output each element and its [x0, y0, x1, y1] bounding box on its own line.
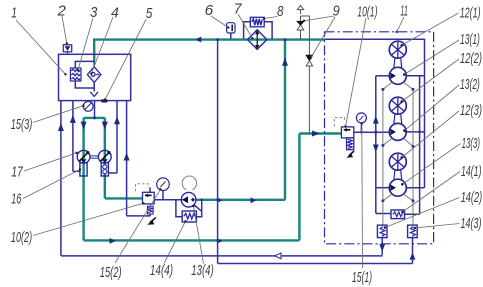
wire tank return bus riser: [60, 101, 62, 256]
svg-text:12(2): 12(2): [460, 50, 482, 67]
svg-text:15(3): 15(3): [11, 116, 33, 133]
wire left case drain rail: [382, 89, 384, 225]
breather 2: [63, 45, 71, 55]
wire pump1 case drain: [73, 101, 80, 172]
svg-text:13(3): 13(3): [462, 135, 480, 152]
svg-text:6: 6: [205, 2, 214, 19]
strainer under pump 17: [80, 163, 87, 176]
leader 12(1): [402, 13, 459, 45]
leader 14(3): [415, 224, 460, 228]
leader 9 to valve 9b: [311, 17, 335, 58]
leader 14(2): [385, 198, 460, 228]
open arrow left on bus 1: [275, 253, 282, 259]
svg-text:4: 4: [111, 5, 119, 22]
leader 13(1): [404, 40, 459, 75]
leader 10(1): [346, 18, 367, 127]
svg-text:5: 5: [146, 5, 153, 22]
valve 10(2) drain arrow: [147, 218, 156, 225]
leader 12(3): [402, 111, 459, 158]
valve 10(1) pilot bracket: [334, 118, 344, 127]
thermometer 15(3): [83, 101, 93, 111]
wire filter loop: [75, 61, 94, 91]
fan 12(3) shaft: [394, 170, 402, 179]
svg-text:8: 8: [277, 3, 284, 20]
wire pressure riser: [298, 134, 300, 241]
wire return header: [325, 39, 425, 187]
svg-text:7: 7: [234, 1, 242, 18]
arrow up valve 10(2) drain: [124, 153, 130, 161]
leader 9 to valve 9a: [304, 16, 334, 21]
arrow up pump2 drain: [114, 116, 120, 124]
svg-text:14(2): 14(2): [461, 189, 483, 206]
wire return from pump 13(4): [196, 199, 286, 201]
leader 13(4): [194, 206, 204, 263]
svg-text:2: 2: [57, 3, 67, 20]
wire motor1 right port: [406, 75, 424, 77]
leader 14(1): [403, 172, 461, 212]
bypass check valve 4: [87, 67, 101, 83]
arrow right on pump return (mid): [251, 197, 257, 203]
wire feed to valve 10(1): [299, 132, 341, 134]
gauge 15(1): [356, 113, 366, 123]
leader 8: [264, 17, 278, 19]
leader 12(2): [402, 59, 459, 102]
relief valve 14(1): [391, 210, 405, 219]
svg-text:13(1): 13(1): [460, 31, 480, 48]
motor 13(3): [389, 179, 406, 196]
motor 13(2): [389, 123, 406, 140]
wire gauge 15(1) stem: [360, 123, 362, 132]
arrow up make-up inlet: [410, 252, 416, 259]
filter 14(2): [377, 225, 387, 238]
cooler 7: [248, 30, 267, 50]
svg-text:1: 1: [11, 5, 17, 22]
wire sensor 6 stem: [230, 33, 232, 39]
motor 13(2) drain legs: [383, 138, 413, 146]
filter 3: [70, 68, 81, 81]
valve 10(2): [143, 192, 155, 214]
gauge 15(2): [157, 178, 170, 191]
wire pump2 to valve 10(2): [105, 197, 143, 199]
wire return bus 1: [61, 255, 383, 257]
wire valve 10(1) out to motor2: [354, 131, 389, 133]
leader end dots: [64, 17, 416, 229]
drain plug 5: [101, 99, 107, 102]
svg-text:15(2): 15(2): [100, 264, 122, 281]
wire pump2 case drain: [109, 101, 117, 173]
leader 4: [91, 17, 113, 74]
tank: [59, 54, 131, 100]
svg-text:16: 16: [11, 191, 22, 208]
temperature sensor 6: [227, 23, 235, 33]
leader 1: [16, 20, 66, 74]
wire tank suction stub: [94, 101, 96, 118]
svg-text:14(3): 14(3): [461, 215, 482, 232]
fan 12(2): [389, 97, 406, 114]
valve 10(2) pilot bracket: [136, 184, 149, 192]
wire gauge 15(2) stem: [162, 191, 164, 200]
filter 14(4): [182, 211, 196, 222]
motor 13(1): [389, 67, 406, 84]
svg-text:14(1): 14(1): [461, 163, 482, 180]
pump 16: [98, 150, 111, 163]
valve 10(1) drain arrow: [346, 151, 354, 158]
leader 2: [62, 16, 67, 44]
node on enclosure border: [396, 31, 399, 34]
svg-text:17: 17: [11, 164, 23, 181]
pump 13(4): [181, 192, 196, 207]
svg-text:9: 9: [333, 3, 341, 20]
motor 13(3) drain legs: [383, 194, 413, 201]
wire motor2 right port: [405, 131, 425, 133]
arrow down supply rail: [373, 145, 379, 153]
arrow right on pressure bus (mid): [218, 239, 222, 243]
leader 15(2): [115, 189, 161, 263]
leader 7: [238, 14, 252, 38]
svg-text:15(1): 15(1): [352, 269, 372, 286]
wire valve 10(2) pilot stem: [149, 187, 151, 192]
wire pump2 suction/delivery: [104, 118, 106, 198]
vent valve 9b: [306, 55, 312, 133]
wire make-up 14(3) inlet: [412, 238, 414, 264]
leader 3: [78, 18, 93, 70]
enclosure 11: [325, 32, 434, 244]
leader 10(2): [33, 203, 143, 235]
arrow up supply rail: [373, 116, 379, 124]
wire supply rail: [376, 76, 391, 214]
leader 13(2): [404, 85, 459, 131]
leader 14(4): [164, 221, 186, 263]
vent valve 9a: [297, 5, 309, 55]
wire return riser: [284, 40, 286, 200]
wire motor3 right port: [406, 187, 425, 189]
wire main return line: [94, 40, 324, 62]
cooler bypass valve 8: [250, 17, 264, 27]
arrow down suction left: [81, 122, 87, 130]
arrow up on return riser: [282, 58, 288, 66]
arrow up pump1 drain: [70, 115, 76, 123]
fan 12(1): [389, 41, 406, 58]
wire inner return rail: [405, 76, 420, 215]
wire cooler bypass loop: [244, 22, 273, 39]
wire motor1 left port: [376, 75, 390, 77]
wire drain 14(2) outlet: [381, 238, 383, 256]
svg-text:3: 3: [90, 4, 98, 21]
valve 10(1): [341, 127, 353, 150]
svg-text:12(1): 12(1): [460, 5, 481, 22]
svg-text:13(2): 13(2): [460, 76, 480, 93]
fan 12(1) shaft: [394, 58, 402, 67]
flow arrows: [58, 37, 416, 260]
wire motor3 left port: [376, 187, 389, 189]
leader 16: [23, 170, 80, 199]
svg-text:11: 11: [400, 3, 408, 20]
arrow right on valve 10(1) feed: [312, 131, 320, 137]
leader 6: [211, 16, 228, 28]
wire pump1 pressure bus: [84, 239, 300, 241]
svg-text:10(1): 10(1): [357, 4, 377, 21]
pump coupling: [90, 156, 98, 158]
svg-text:12(3): 12(3): [460, 102, 482, 119]
svg-text:14(4): 14(4): [150, 262, 173, 279]
arrow up tank bus riser: [58, 123, 64, 131]
leader 15(3): [33, 106, 83, 123]
leader 17: [24, 153, 77, 171]
leader 5: [105, 20, 146, 100]
arrow left on main return: [195, 37, 201, 43]
pump 13(4) drive arc: [182, 176, 196, 190]
arrow down drain outlet: [379, 244, 385, 251]
tank discharge arrow: [90, 92, 98, 97]
arrow right on pressure bus (left): [110, 238, 117, 244]
wire valve 10(2) outlet: [154, 199, 182, 201]
strainer under pump 16: [101, 163, 108, 176]
wire right case drain rail: [412, 89, 414, 225]
wire center vertical: [217, 40, 219, 264]
arrow right on pump return (junction): [218, 198, 222, 202]
leader 11: [397, 17, 404, 32]
wire bus 2: [218, 263, 413, 265]
wire pump 13(4) loop: [176, 200, 202, 217]
pump 17: [77, 150, 90, 163]
wire pump1 suction/delivery: [82, 118, 84, 240]
filter 14(3): [408, 225, 418, 238]
motor 13(1) drain legs: [383, 82, 413, 89]
wire valve 10(2) drain: [127, 101, 151, 216]
arrow down suction right: [102, 122, 108, 130]
leader 15(1): [361, 123, 364, 268]
wire suction manifold: [84, 117, 105, 119]
fan 12(3): [389, 153, 406, 170]
leader 13(3): [402, 144, 460, 185]
svg-text:10(2): 10(2): [11, 229, 32, 246]
fan 12(2) shaft: [394, 114, 402, 123]
svg-text:13(4): 13(4): [191, 262, 213, 279]
